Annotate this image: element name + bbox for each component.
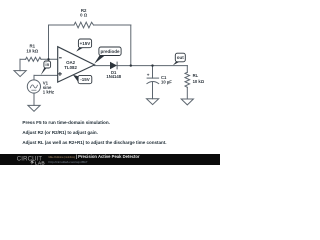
svg-text:-15V: -15V [80, 77, 90, 82]
junction node A [47, 58, 49, 60]
svg-text:10 kΩ: 10 kΩ [26, 48, 38, 53]
op-amp plus pin mark [58, 72, 62, 76]
wire R1 right lead to node A [41, 58, 58, 60]
wire node A up to R2 [48, 25, 50, 59]
label RL value [193, 73, 205, 84]
wire op-amp output to diode [95, 65, 111, 67]
node label in [41, 61, 51, 75]
svg-text:+15V: +15V [80, 41, 91, 46]
svg-text:prediode: prediode [100, 49, 119, 54]
capacitor C1 curved plate [147, 82, 159, 84]
wire V1 riser [33, 75, 35, 80]
wire R2 left lead [49, 24, 75, 26]
svg-text:1N4148: 1N4148 [106, 74, 121, 79]
wire R1 left lead to ground corner [20, 58, 26, 60]
wire feedback drop [130, 25, 132, 66]
source V1 [27, 80, 40, 93]
footer bar [0, 154, 220, 165]
power +15V [76, 39, 91, 52]
footer logo bolt [30, 160, 34, 164]
op-amp OA2 [58, 47, 95, 82]
wire RL bottom to ground [186, 87, 188, 99]
power -15V [73, 75, 92, 84]
label R1 value [26, 44, 38, 54]
label C1 value [161, 75, 172, 84]
node label out [173, 53, 186, 65]
label V1 value [43, 81, 54, 95]
svg-text:1 kHz: 1 kHz [43, 89, 54, 94]
ground (RL) [181, 99, 193, 105]
junction feedback node [130, 64, 132, 66]
svg-text:http://circuitlab.com/cqv45k7: http://circuitlab.com/cqv45k7 [49, 160, 88, 164]
resistor RL [185, 72, 190, 87]
svg-text:LAB: LAB [35, 160, 46, 165]
node label prediode [94, 47, 121, 64]
resistor R2 [74, 22, 94, 28]
svg-text:Adjust RL (as well as R2+R1) t: Adjust RL (as well as R2+R1) to adjust t… [22, 140, 166, 145]
op-amp minus pin mark [59, 57, 62, 59]
label R2 value [80, 8, 88, 18]
wire C1 branch [152, 66, 154, 79]
wire diode cathode to RL corner [117, 65, 187, 67]
V1 sine glyph [30, 85, 37, 88]
svg-text:in: in [45, 62, 49, 67]
wire R2 right lead [94, 24, 131, 26]
svg-text:10 µF: 10 µF [161, 79, 172, 84]
wire RL top corner [186, 66, 188, 73]
label D1 value [106, 70, 121, 79]
svg-text:Press F5 to run time-domain si: Press F5 to run time-domain simulation. [22, 120, 110, 125]
svg-text:out: out [177, 55, 184, 60]
wire V1 bottom to ground [33, 93, 35, 105]
wire ground drop left [19, 59, 21, 70]
svg-text:Adjust R2 (or R2/R1) to adjust: Adjust R2 (or R2/R1) to adjust gain. [22, 130, 98, 135]
svg-text:TL082: TL082 [64, 65, 77, 70]
svg-text:10 kΩ: 10 kΩ [193, 79, 205, 84]
diode D1 [110, 62, 118, 70]
resistor R1 [26, 57, 41, 61]
V1 polarity dash [32, 89, 36, 91]
svg-text:RL: RL [193, 73, 199, 78]
svg-text:0 Ω: 0 Ω [80, 13, 88, 18]
ground (R1) [14, 71, 26, 77]
ground (C1) [147, 99, 159, 105]
ground (V1) [28, 105, 40, 111]
capacitor C1 top plate [147, 77, 159, 79]
wire C1 to ground [152, 82, 154, 99]
svg-text:+: + [147, 72, 150, 77]
wire V1 to op-amp + input [34, 74, 58, 76]
junction C1 node [151, 64, 153, 66]
